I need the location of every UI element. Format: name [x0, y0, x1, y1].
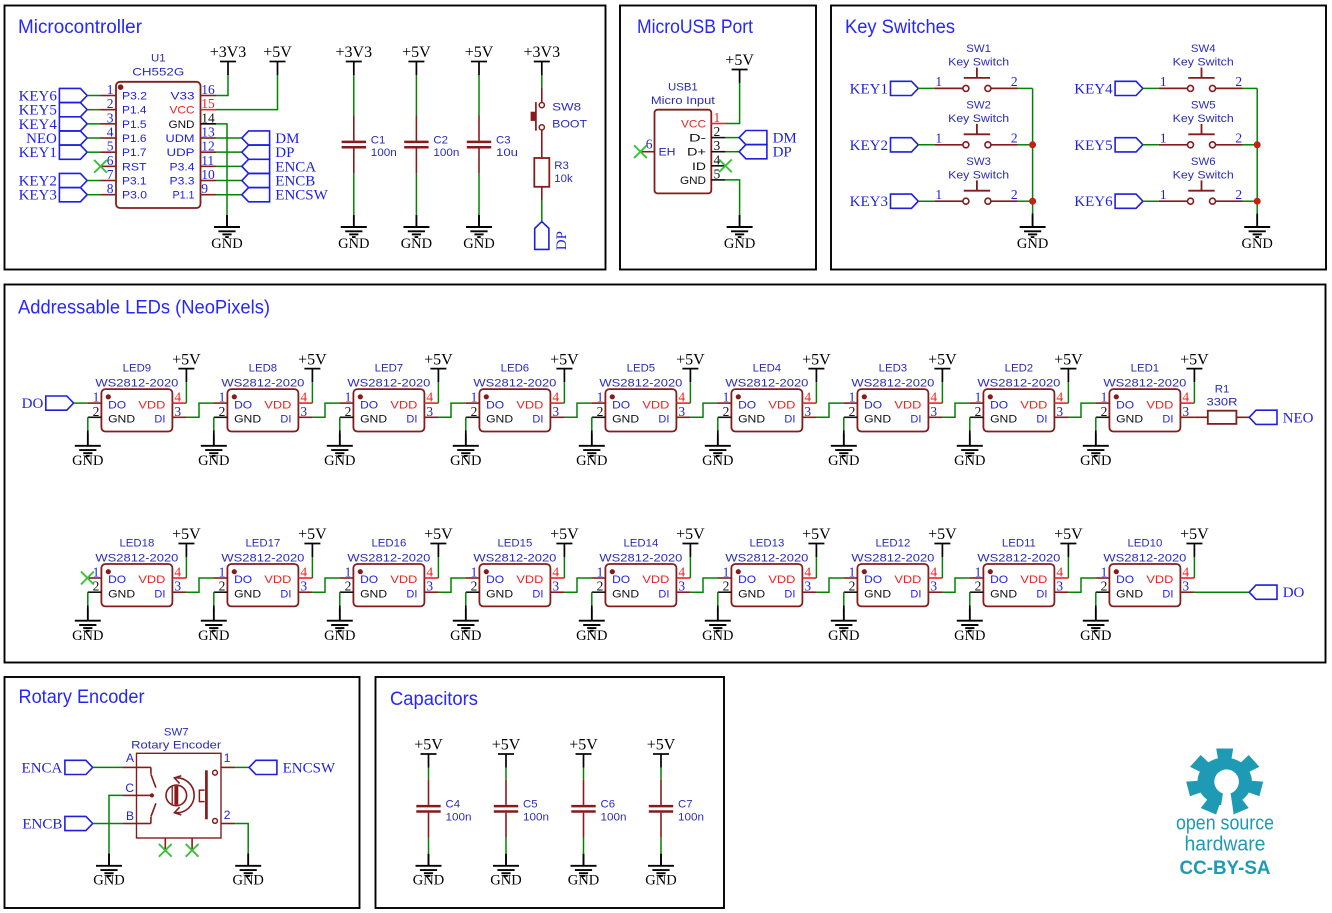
svg-text:LED3: LED3	[879, 363, 908, 375]
wire	[216, 151, 242, 153]
wire	[353, 174, 355, 215]
svg-text:C6: C6	[601, 799, 616, 811]
power +3V3	[336, 44, 373, 75]
node NEO	[1249, 410, 1313, 426]
svg-text:2: 2	[1235, 187, 1242, 202]
wire	[941, 382, 943, 403]
wire gnd lead	[213, 605, 215, 620]
node KEY6	[1074, 194, 1143, 210]
svg-text:Key Switch: Key Switch	[1173, 113, 1234, 125]
svg-text:SW1: SW1	[966, 43, 991, 55]
svg-text:LED9: LED9	[123, 363, 152, 375]
svg-text:+3V3: +3V3	[524, 44, 561, 61]
section box Microcontroller	[5, 6, 606, 270]
svg-text:KEY1: KEY1	[850, 81, 888, 97]
pin 3 D+	[687, 138, 725, 159]
svg-text:KEY6: KEY6	[1074, 194, 1113, 210]
logo text open source hardware	[1176, 813, 1274, 880]
wire	[541, 75, 543, 87]
svg-text:GND: GND	[413, 872, 444, 888]
label SW2 fields	[948, 100, 1009, 125]
node KEY1	[19, 145, 88, 161]
svg-text:3: 3	[552, 404, 559, 419]
svg-text:C3: C3	[496, 135, 511, 147]
svg-text:ENCB: ENCB	[22, 817, 62, 833]
wire	[87, 151, 100, 153]
wire	[660, 768, 662, 780]
svg-text:2: 2	[1101, 579, 1108, 594]
ground	[72, 609, 103, 644]
svg-text:GND: GND	[450, 453, 481, 469]
junction	[1254, 198, 1261, 205]
svg-text:LED7: LED7	[375, 363, 404, 375]
svg-text:Key Switch: Key Switch	[948, 113, 1009, 125]
wire gnd lead	[353, 215, 355, 227]
svg-text:WS2812-2020: WS2812-2020	[725, 377, 808, 389]
svg-text:GND: GND	[864, 414, 891, 426]
no-connect	[159, 844, 172, 857]
wire gnd lead	[415, 215, 417, 227]
svg-text:GND: GND	[612, 414, 639, 426]
node NEO	[26, 131, 87, 147]
svg-text:4: 4	[426, 390, 433, 405]
power +5V	[424, 526, 453, 557]
pin 4 ID	[692, 152, 725, 173]
svg-text:Addressable LEDs (NeoPixels): Addressable LEDs (NeoPixels)	[18, 298, 270, 319]
svg-text:DI: DI	[658, 414, 669, 426]
svg-text:2: 2	[1011, 130, 1018, 145]
svg-text:3: 3	[930, 404, 937, 419]
wire	[541, 200, 543, 222]
wire	[717, 592, 719, 605]
svg-text:VDD: VDD	[516, 574, 543, 586]
wire	[725, 180, 739, 215]
no-connect	[81, 572, 94, 585]
label SW6 fields	[1173, 156, 1234, 181]
svg-text:WS2812-2020: WS2812-2020	[977, 552, 1060, 564]
svg-text:2: 2	[1011, 187, 1018, 202]
svg-text:2: 2	[224, 808, 231, 822]
pin C	[122, 781, 136, 796]
ground	[93, 854, 124, 889]
led LED1 WS2812-2020	[1095, 363, 1194, 432]
svg-text:GND: GND	[108, 589, 135, 601]
wire	[1068, 403, 1095, 417]
node KEY1	[850, 81, 919, 97]
svg-text:VDD: VDD	[1020, 399, 1047, 411]
svg-text:WS2812-2020: WS2812-2020	[347, 552, 430, 564]
svg-text:GND: GND	[232, 872, 263, 888]
wire	[591, 417, 593, 430]
wire	[109, 795, 122, 853]
wire	[660, 838, 662, 854]
svg-text:DI: DI	[406, 414, 417, 426]
svg-text:LED15: LED15	[497, 538, 532, 550]
svg-text:A: A	[126, 751, 134, 765]
ground	[828, 609, 859, 644]
svg-text:GND: GND	[576, 453, 607, 469]
svg-text:VDD: VDD	[264, 574, 291, 586]
ground	[232, 854, 263, 889]
wire gnd lead	[660, 854, 662, 866]
node KEY4	[1074, 81, 1143, 97]
svg-text:C: C	[125, 781, 134, 795]
label SW5 fields	[1173, 100, 1234, 125]
node KEY6	[19, 88, 88, 104]
svg-text:1: 1	[1160, 74, 1167, 89]
wire	[583, 838, 585, 854]
svg-text:12: 12	[201, 139, 215, 154]
svg-text:1: 1	[849, 565, 856, 580]
power +5V	[298, 526, 327, 557]
wire gnd lead	[213, 431, 215, 446]
pin 13 UDM	[166, 125, 217, 146]
wire	[1243, 144, 1258, 146]
svg-text:+5V: +5V	[298, 351, 327, 368]
svg-text:DI: DI	[1162, 414, 1173, 426]
wire gnd lead	[226, 215, 228, 227]
svg-text:4: 4	[678, 565, 685, 580]
wire	[216, 75, 228, 96]
svg-text:4: 4	[174, 390, 181, 405]
svg-text:1: 1	[107, 82, 114, 97]
svg-text:GND: GND	[1116, 414, 1143, 426]
wire	[312, 403, 339, 417]
svg-text:DO: DO	[486, 574, 504, 586]
wire	[438, 403, 465, 417]
wire	[689, 382, 691, 403]
wire	[816, 403, 843, 417]
wire	[583, 768, 585, 780]
node ENCA	[242, 159, 316, 175]
svg-text:DI: DI	[532, 414, 543, 426]
svg-text:1: 1	[597, 565, 604, 580]
encoder internal contacts	[137, 767, 156, 823]
svg-text:DO: DO	[486, 399, 504, 411]
wire	[1067, 382, 1069, 403]
svg-text:1: 1	[471, 565, 478, 580]
power +5V	[802, 526, 831, 557]
wire	[465, 592, 467, 605]
resistor R1 330R	[1194, 384, 1249, 424]
ground	[324, 609, 355, 644]
svg-text:+5V: +5V	[1180, 526, 1209, 543]
svg-text:DO: DO	[234, 574, 252, 586]
svg-text:+5V: +5V	[928, 351, 957, 368]
wire	[725, 137, 739, 139]
svg-text:4: 4	[1056, 565, 1063, 580]
svg-text:2: 2	[723, 579, 730, 594]
wire	[564, 578, 591, 592]
wire gnd lead	[591, 605, 593, 620]
svg-text:DO: DO	[1116, 574, 1134, 586]
ground	[198, 609, 229, 644]
power +5V	[1054, 526, 1083, 557]
svg-text:GND: GND	[324, 453, 355, 469]
wire	[87, 194, 100, 196]
svg-text:WS2812-2020: WS2812-2020	[95, 377, 178, 389]
svg-text:GND: GND	[401, 236, 432, 252]
pin 9 P1.1	[173, 181, 217, 202]
pin 6 EH	[640, 137, 675, 159]
svg-text:V33: V33	[171, 91, 195, 103]
svg-text:LED18: LED18	[119, 538, 154, 550]
node KEY5	[19, 103, 88, 119]
ground	[1080, 434, 1111, 469]
power +3V3	[524, 44, 561, 75]
svg-text:4: 4	[930, 565, 937, 580]
svg-text:GND: GND	[490, 872, 521, 888]
svg-text:+5V: +5V	[725, 52, 754, 69]
svg-text:VDD: VDD	[264, 399, 291, 411]
svg-text:1: 1	[345, 565, 352, 580]
svg-text:100n: 100n	[371, 147, 397, 159]
switch SW3 Key Switch	[934, 180, 1018, 204]
pin 7 P3.1	[101, 167, 147, 188]
ground	[490, 854, 521, 889]
svg-text:330R: 330R	[1207, 397, 1238, 409]
led LED12 WS2812-2020	[843, 538, 942, 607]
led LED3 WS2812-2020	[843, 363, 942, 432]
resistor R3 10k	[534, 158, 573, 187]
svg-text:LED14: LED14	[623, 538, 658, 550]
svg-text:2: 2	[219, 579, 226, 594]
switch SW8 BOOT	[531, 87, 588, 158]
ground	[954, 609, 985, 644]
power +5V	[928, 351, 957, 382]
wire	[216, 194, 242, 196]
capacitor C5	[494, 780, 549, 838]
wire	[311, 382, 313, 403]
svg-text:3: 3	[1056, 579, 1063, 594]
svg-text:P3.1: P3.1	[122, 176, 147, 188]
svg-text:+5V: +5V	[298, 526, 327, 543]
ground	[568, 854, 599, 889]
power +5V	[550, 526, 579, 557]
ground	[724, 215, 755, 252]
svg-text:3: 3	[174, 579, 181, 594]
pin 16 V33	[171, 82, 217, 103]
wire	[216, 75, 278, 110]
svg-text:VDD: VDD	[516, 399, 543, 411]
ground	[576, 609, 607, 644]
svg-text:WS2812-2020: WS2812-2020	[977, 377, 1060, 389]
wire	[843, 417, 845, 430]
svg-text:1: 1	[723, 565, 730, 580]
svg-text:GND: GND	[828, 628, 859, 644]
wire	[563, 382, 565, 403]
svg-text:KEY3: KEY3	[19, 188, 57, 204]
switch SW1 Key Switch	[934, 68, 1018, 92]
svg-text:WS2812-2020: WS2812-2020	[1103, 377, 1186, 389]
svg-text:D+: D+	[687, 147, 706, 159]
node ENCA	[22, 760, 93, 776]
svg-text:4: 4	[804, 390, 811, 405]
svg-text:DI: DI	[1162, 589, 1173, 601]
wire gnd lead	[428, 854, 430, 866]
svg-text:SW8: SW8	[552, 101, 581, 113]
svg-text:DO: DO	[108, 574, 126, 586]
ground	[828, 434, 859, 469]
svg-text:2: 2	[723, 404, 730, 419]
section box MicroUSB Port	[620, 6, 816, 270]
svg-text:LED17: LED17	[245, 538, 280, 550]
wire	[1032, 88, 1034, 213]
svg-text:VDD: VDD	[894, 574, 921, 586]
svg-text:2: 2	[93, 579, 100, 594]
svg-text:Capacitors: Capacitors	[390, 689, 478, 710]
wire	[1256, 88, 1258, 213]
wire	[185, 382, 187, 403]
wire	[941, 557, 943, 578]
svg-text:hardware: hardware	[1185, 834, 1266, 856]
wire gnd lead	[583, 854, 585, 866]
node KEY5	[1074, 138, 1143, 154]
svg-text:DI: DI	[910, 414, 921, 426]
svg-text:WS2812-2020: WS2812-2020	[95, 552, 178, 564]
node ENCSW	[242, 188, 329, 204]
svg-text:Key Switch: Key Switch	[1173, 169, 1234, 181]
svg-text:3: 3	[426, 404, 433, 419]
svg-text:4: 4	[174, 565, 181, 580]
pin 6 RST	[101, 153, 147, 174]
svg-text:WS2812-2020: WS2812-2020	[599, 377, 682, 389]
node KEY3	[19, 188, 88, 204]
svg-text:GND: GND	[864, 589, 891, 601]
svg-text:+5V: +5V	[1054, 526, 1083, 543]
svg-text:GND: GND	[738, 589, 765, 601]
label SW3 fields	[948, 156, 1009, 181]
svg-text:DO: DO	[612, 574, 630, 586]
wire gnd lead	[87, 605, 89, 620]
svg-text:USB1: USB1	[668, 82, 698, 94]
svg-text:3: 3	[714, 138, 721, 153]
wire	[87, 137, 100, 139]
svg-text:GND: GND	[1116, 589, 1143, 601]
svg-text:1: 1	[219, 390, 226, 405]
wire	[1143, 87, 1159, 89]
svg-text:DI: DI	[784, 414, 795, 426]
no-connect	[186, 844, 199, 857]
svg-text:DI: DI	[784, 589, 795, 601]
svg-text:DI: DI	[406, 589, 417, 601]
svg-text:Rotary Encoder: Rotary Encoder	[131, 740, 221, 752]
svg-text:VDD: VDD	[642, 574, 669, 586]
switch SW2 Key Switch	[934, 124, 1018, 148]
wire	[235, 824, 248, 854]
power +5V	[172, 526, 201, 557]
svg-text:RST: RST	[122, 161, 147, 173]
svg-text:DO: DO	[234, 399, 252, 411]
svg-text:P3.0: P3.0	[122, 190, 147, 202]
svg-text:CC-BY-SA: CC-BY-SA	[1180, 857, 1271, 879]
svg-text:R3: R3	[554, 160, 569, 172]
switch SW6 Key Switch	[1159, 180, 1243, 204]
svg-text:VDD: VDD	[768, 399, 795, 411]
wire	[1067, 557, 1069, 578]
wire	[1018, 87, 1033, 89]
wire	[216, 165, 242, 167]
wire	[438, 578, 465, 592]
section box Capacitors	[376, 677, 725, 908]
svg-text:GND: GND	[645, 872, 676, 888]
svg-text:GND: GND	[211, 236, 242, 252]
node KEY3	[850, 194, 919, 210]
svg-text:1: 1	[471, 390, 478, 405]
svg-text:4: 4	[1056, 390, 1063, 405]
svg-text:GND: GND	[234, 414, 261, 426]
ic U1 CH552G body	[116, 53, 201, 209]
svg-text:GND: GND	[702, 453, 733, 469]
svg-text:+5V: +5V	[550, 351, 579, 368]
svg-text:2: 2	[1011, 74, 1018, 89]
wire	[1194, 591, 1249, 593]
pin 1	[221, 751, 235, 768]
svg-text:1: 1	[714, 110, 721, 125]
svg-text:P3.2: P3.2	[122, 91, 147, 103]
svg-text:1: 1	[975, 390, 982, 405]
svg-text:WS2812-2020: WS2812-2020	[347, 377, 430, 389]
svg-text:GND: GND	[324, 628, 355, 644]
svg-text:1: 1	[935, 187, 942, 202]
capacitor C7	[649, 780, 704, 838]
svg-text:KEY2: KEY2	[850, 138, 888, 154]
svg-text:D-: D-	[689, 133, 706, 145]
ground	[702, 434, 733, 469]
no-connect	[719, 159, 732, 172]
svg-text:VDD: VDD	[138, 574, 165, 586]
svg-text:100n: 100n	[433, 147, 459, 159]
wire	[725, 83, 739, 124]
svg-text:WS2812-2020: WS2812-2020	[725, 552, 808, 564]
svg-text:NEO: NEO	[1283, 410, 1314, 426]
svg-text:+5V: +5V	[1180, 351, 1209, 368]
resistor R3 10k leads	[541, 187, 543, 200]
capacitor C1	[342, 116, 397, 174]
ground	[702, 609, 733, 644]
wire	[689, 557, 691, 578]
pin 1 VCC	[681, 110, 725, 131]
wire	[87, 95, 100, 97]
svg-text:DO: DO	[360, 399, 378, 411]
svg-text:GND: GND	[169, 119, 195, 131]
wire	[725, 151, 739, 153]
wire	[843, 592, 845, 605]
wire gnd lead	[505, 854, 507, 866]
svg-text:WS2812-2020: WS2812-2020	[473, 377, 556, 389]
svg-text:4: 4	[1182, 390, 1189, 405]
svg-text:DO: DO	[864, 574, 882, 586]
svg-text:LED1: LED1	[1131, 363, 1160, 375]
svg-text:2: 2	[93, 404, 100, 419]
svg-text:GND: GND	[108, 414, 135, 426]
svg-text:2: 2	[345, 579, 352, 594]
svg-text:+5V: +5V	[928, 526, 957, 543]
svg-text:GND: GND	[990, 589, 1017, 601]
svg-text:3: 3	[804, 404, 811, 419]
svg-text:SW4: SW4	[1191, 43, 1216, 55]
svg-text:LED16: LED16	[371, 538, 406, 550]
svg-text:GND: GND	[576, 628, 607, 644]
wire gnd lead	[465, 431, 467, 446]
node DM	[242, 131, 300, 147]
svg-text:LED6: LED6	[501, 363, 530, 375]
svg-text:WS2812-2020: WS2812-2020	[473, 552, 556, 564]
svg-text:1: 1	[1160, 187, 1167, 202]
power +5V	[465, 44, 494, 75]
svg-text:+5V: +5V	[492, 737, 521, 754]
svg-text:10k: 10k	[554, 173, 573, 185]
